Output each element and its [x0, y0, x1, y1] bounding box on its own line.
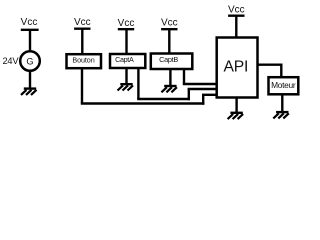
wire Moteur bottom to ground [281, 94, 283, 112]
svg-text:Vcc: Vcc [161, 18, 178, 29]
wire Bouton to API input (down, right, up, right) [81, 68, 217, 105]
box CaptA [110, 54, 145, 68]
svg-text:CaptB: CaptB [159, 55, 178, 64]
box CaptB [151, 54, 193, 70]
ground below CaptA [118, 84, 134, 90]
svg-text:API: API [223, 58, 248, 75]
wire generator bottom to ground [29, 71, 31, 89]
wire CaptA left pin to ground [125, 68, 127, 84]
svg-text:CaptA: CaptA [115, 55, 134, 64]
wire API bottom to ground [235, 98, 237, 113]
svg-text:G: G [26, 56, 33, 66]
Vcc symbol above API [228, 5, 245, 16]
svg-text:Moteur: Moteur [271, 80, 296, 90]
svg-text:Vcc: Vcc [21, 17, 38, 28]
svg-text:Vcc: Vcc [74, 17, 91, 28]
box API (automate) [217, 38, 258, 98]
Vcc symbol above CaptA [118, 18, 135, 29]
svg-text:24V: 24V [3, 56, 20, 66]
ground below API [228, 113, 244, 119]
generator G (24V source) [20, 51, 40, 71]
ground below Moteur [273, 112, 289, 118]
wire Vcc to Bouton top [81, 29, 83, 55]
wire Vcc to generator top [29, 30, 31, 52]
Vcc symbol above Bouton [74, 17, 91, 29]
ground below generator [21, 89, 37, 95]
svg-text:Vcc: Vcc [118, 18, 135, 29]
wire CaptB right pin to API input (down, right) [183, 69, 217, 84]
wire Vcc to CaptB top [168, 29, 170, 53]
svg-text:Bouton: Bouton [72, 55, 94, 64]
Vcc symbol above CaptB [161, 18, 178, 30]
svg-text:Vcc: Vcc [228, 5, 245, 16]
wire API output to Moteur (right, down) [258, 64, 282, 78]
wire CaptB left pin to ground [169, 69, 171, 86]
wire Vcc to CaptA top [125, 29, 127, 54]
box Moteur [269, 77, 299, 94]
wire Vcc to API top [235, 16, 237, 38]
ground below CaptB [161, 86, 177, 92]
Vcc symbol above generator [21, 17, 39, 30]
box Bouton [67, 54, 102, 68]
wire CaptA right pin to API input (down, right, up, right) [137, 68, 217, 100]
